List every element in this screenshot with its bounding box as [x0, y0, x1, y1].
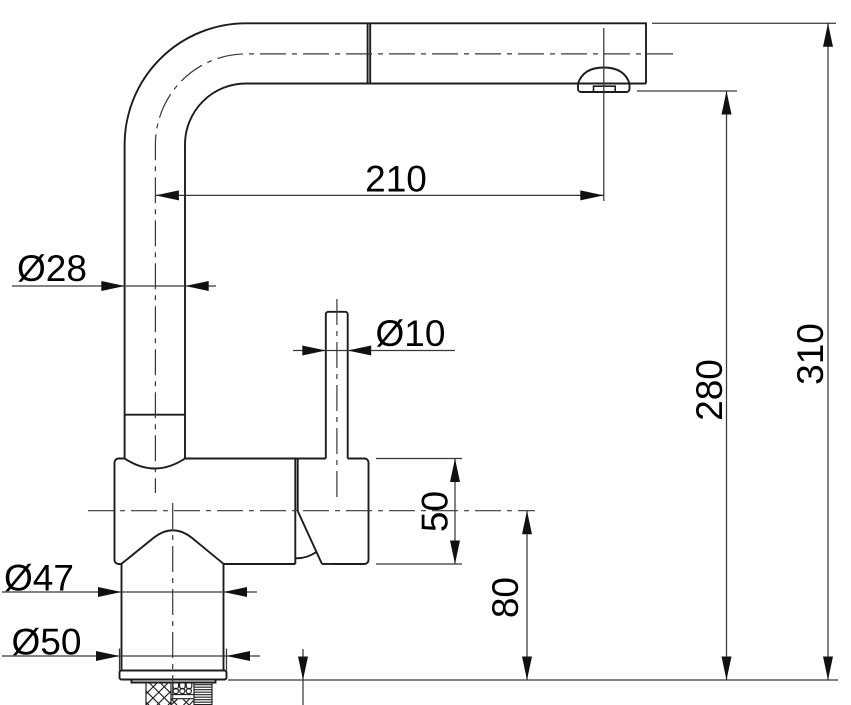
aerator housing	[578, 84, 630, 93]
svg-text:Ø28: Ø28	[17, 248, 87, 289]
dim line 280	[726, 91, 728, 680]
base column	[122, 564, 224, 671]
extension lines flange Ø50	[120, 649, 227, 671]
spout tube inner profile	[185, 84, 646, 459]
extension line body top	[376, 458, 462, 460]
arrows 210	[155, 190, 603, 200]
svg-text:Ø50: Ø50	[12, 622, 82, 663]
dim line Ø47	[2, 591, 257, 593]
extension line aerator bottom	[637, 90, 737, 92]
aerator dome	[578, 68, 630, 84]
extension line body bottom	[376, 563, 462, 565]
pipe collar joint line	[125, 414, 185, 416]
arrows Ø28	[101, 281, 208, 291]
svg-text:Ø47: Ø47	[4, 558, 74, 599]
body outline	[115, 458, 369, 564]
extension line top of spout	[652, 22, 836, 24]
seat ring	[132, 680, 216, 683]
arrows Ø50	[96, 651, 250, 661]
arrows 310	[823, 23, 833, 680]
dim line Ø10	[293, 350, 455, 352]
handle rod	[326, 312, 348, 459]
spout tube outer profile (bend + top edge)	[125, 23, 646, 458]
arrows Ø47	[98, 587, 247, 597]
shank threaded stud	[194, 683, 212, 705]
arrows Ø10	[302, 346, 371, 356]
counter datum arrow	[302, 649, 304, 705]
dim line 310	[827, 23, 829, 680]
arrows 280	[722, 91, 732, 680]
svg-text:210: 210	[365, 159, 427, 200]
centerline: body horizontal axis	[88, 510, 535, 512]
handle skirt diagonal	[298, 511, 322, 564]
svg-text:Ø10: Ø10	[376, 313, 446, 354]
svg-text:50: 50	[415, 491, 456, 532]
dim line Ø50	[2, 655, 260, 657]
arrows 80	[522, 511, 532, 680]
dim line 50	[454, 459, 456, 565]
dim line 210	[155, 194, 603, 196]
body-to-column dome	[122, 530, 224, 564]
aerator outlet rectangle	[594, 86, 616, 92]
shank hose connectors	[171, 683, 194, 705]
cartridge joint double line	[295, 459, 297, 565]
svg-text:310: 310	[790, 323, 831, 385]
svg-text:280: 280	[689, 359, 730, 421]
base flange	[120, 671, 227, 680]
handle skirt bottom arc	[296, 552, 317, 558]
dim line Ø28	[12, 285, 216, 287]
svg-text:80: 80	[485, 577, 526, 618]
spout joint double line	[368, 23, 371, 83]
counter reference line	[228, 679, 838, 681]
shank hatched section	[146, 683, 171, 705]
outlet axis / 210 extension line	[603, 28, 605, 201]
dim line 80	[526, 511, 528, 680]
arrows 50	[450, 459, 460, 565]
centerline: column axis	[172, 503, 174, 705]
centerline: spout axis	[155, 54, 673, 493]
centerline: handle rod axis	[336, 299, 338, 503]
